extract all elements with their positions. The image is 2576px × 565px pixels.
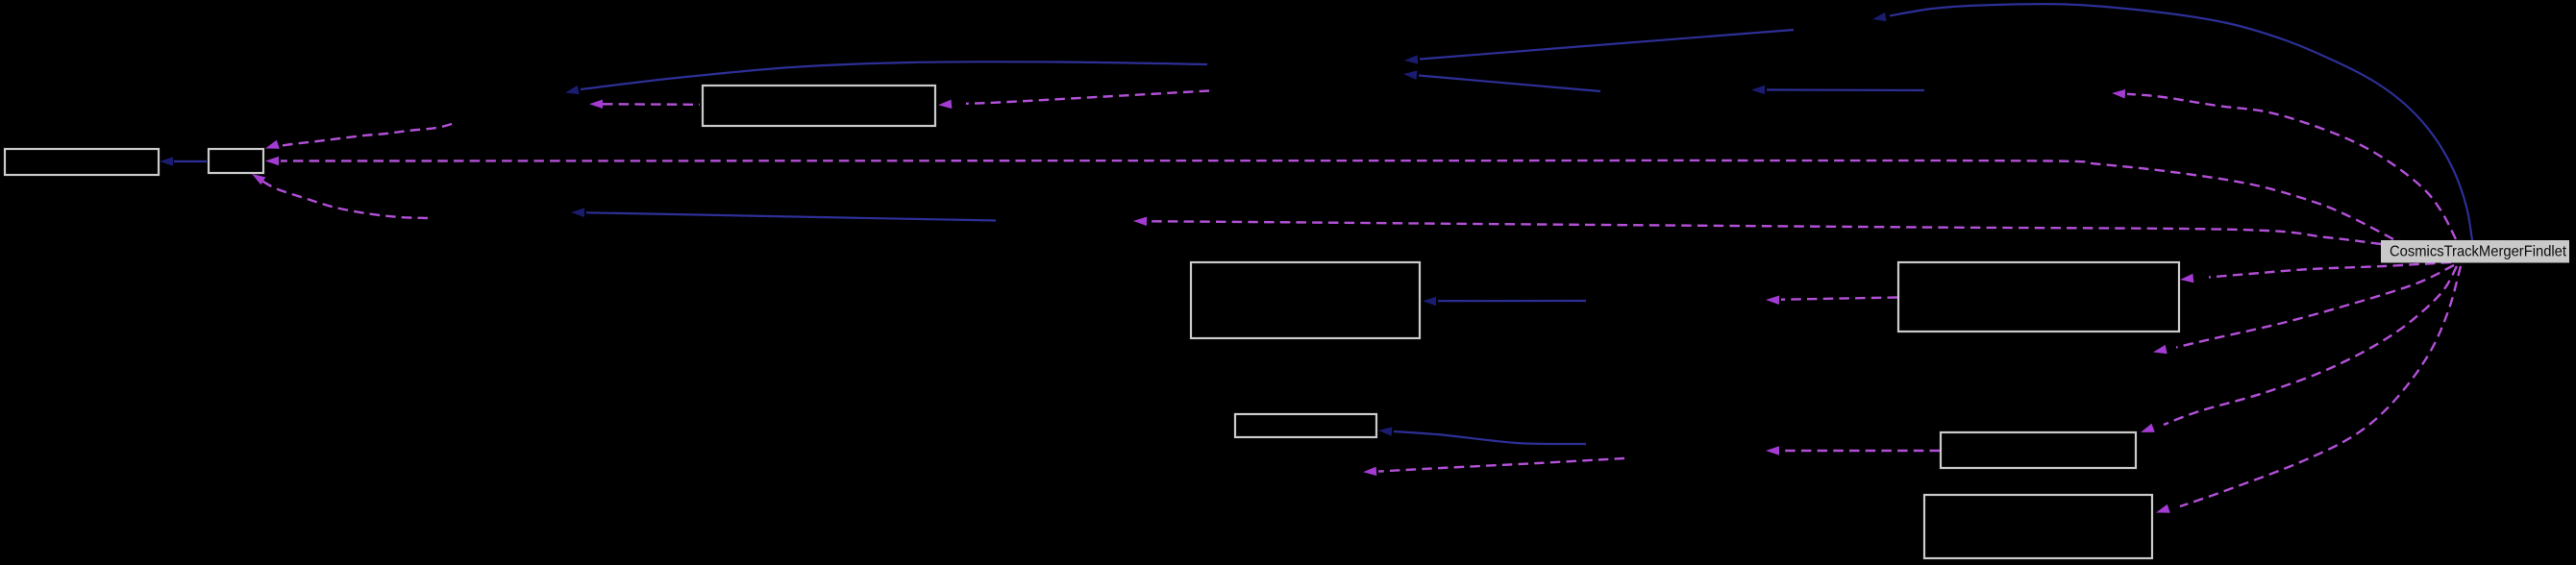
edge dashed H1 long from main node to box3 <box>265 157 2393 239</box>
edge dashed D5 long from main node left edge <box>1133 217 2381 245</box>
edge dashed H3 from box5 to invisible node <box>1766 296 1897 306</box>
edge dashed H2 from box1 to invisible node <box>589 100 700 110</box>
edge blue box3->box2 <box>160 157 207 166</box>
node box2 (far left class) <box>5 149 159 175</box>
edge dashed D2 from main node top <box>2112 89 2456 239</box>
node box5 (right template class) <box>1898 262 2179 332</box>
edge dashed D6 into box5 right edge <box>2180 262 2451 282</box>
svg-text:CosmicsTrackMergerFindlet: CosmicsTrackMergerFindlet <box>2390 244 2567 260</box>
edge blue B2 <box>1404 30 1794 64</box>
edge blue B7 into box6 <box>1378 427 1586 444</box>
node box8 (bottom right class) <box>1924 495 2152 558</box>
main node CosmicsTrackMergerFindlet <box>2381 240 2569 263</box>
edge blue B1 long curve to invisible node <box>565 61 1207 94</box>
edge dashed C1 into box3 top corner <box>265 124 452 149</box>
edge dashed D10 into box8 right edge <box>2156 266 2461 513</box>
edge dashed C3 into box3 bottom <box>252 174 428 218</box>
edge blue A1 big arc from main node <box>1872 4 2472 240</box>
edge blue B4 <box>1751 86 1924 94</box>
node box4 (centre template class) <box>1191 262 1420 338</box>
edge dashed D9 into box7 top corner <box>2141 266 2457 432</box>
node box6 (centre small class) <box>1235 414 1376 437</box>
edge blue B6 into box4 <box>1423 297 1586 307</box>
node box3 (small left class) <box>209 149 263 173</box>
edge dashed D11 into box1 right edge <box>938 91 1209 110</box>
edge dashed H4 from box7 to invisible node <box>1766 446 1940 455</box>
edge blue B5 <box>571 209 996 221</box>
edge dashed D8 to invisible node below box6 <box>1363 458 1624 476</box>
edge dashed Da to invisible node below box5 <box>2153 265 2454 354</box>
edge blue B3 <box>1403 71 1600 92</box>
node box7 (right class) <box>1941 432 2136 468</box>
node box1 (top template class) <box>703 86 935 126</box>
